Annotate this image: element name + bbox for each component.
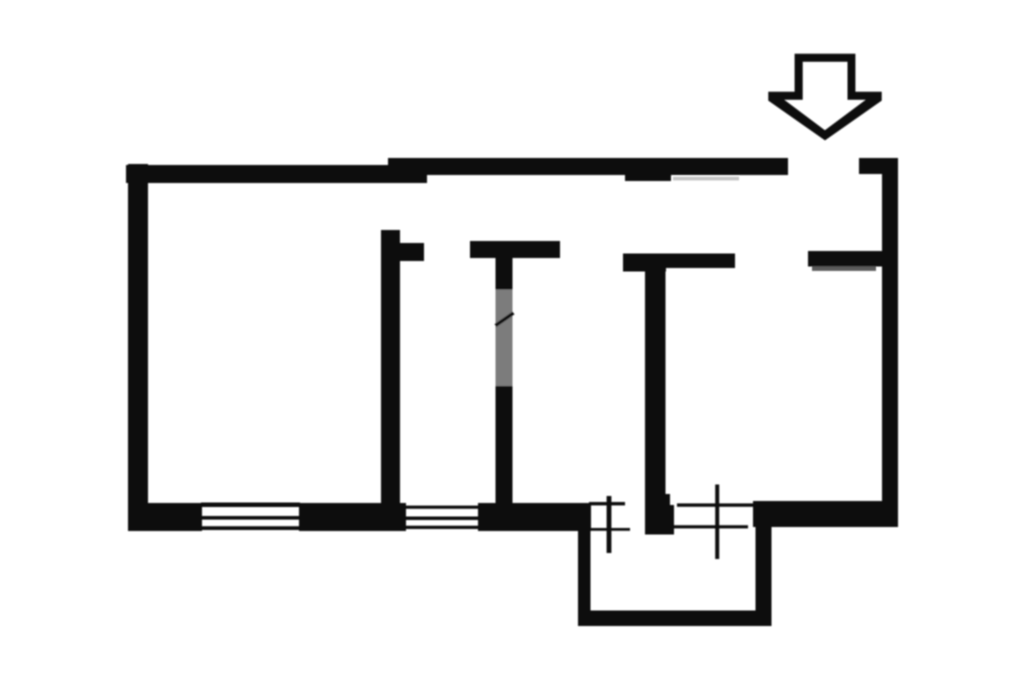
window W1 bottom line bbox=[201, 526, 300, 530]
interior wall C bar left end cap bbox=[623, 255, 666, 272]
window W1 middle line bbox=[201, 516, 300, 520]
window W1 top line bbox=[201, 503, 300, 508]
top wall bump bbox=[625, 174, 671, 181]
bottom wall segment between windows bbox=[299, 503, 406, 531]
interior wall A vertical bbox=[381, 230, 400, 504]
interior wall C stem bbox=[645, 262, 666, 529]
window W2 middle line bbox=[406, 517, 479, 521]
top wall faint trace bbox=[673, 177, 739, 181]
balcony window D2 frame tick bbox=[715, 485, 719, 560]
interior wall C foot bbox=[645, 505, 674, 535]
balcony window D2 top line bbox=[677, 503, 754, 506]
balcony door D1 frame tick bbox=[607, 496, 612, 553]
interior wall B stem upper black bbox=[496, 256, 513, 291]
balcony right wall bbox=[756, 524, 772, 626]
outer wall: top right stub at entrance bbox=[859, 158, 898, 174]
balcony door D1 top line bbox=[589, 502, 625, 505]
outer wall: top left section bbox=[126, 165, 427, 183]
outer wall: right bbox=[882, 158, 898, 524]
interior wall A stub bbox=[398, 243, 424, 261]
interior wall D shadow fringe bbox=[812, 266, 876, 271]
interior wall C foot tab bbox=[660, 494, 670, 508]
interior wall B header bar bbox=[470, 241, 560, 258]
balcony bottom wall bbox=[578, 611, 771, 627]
balcony door D1 bottom line bbox=[589, 528, 630, 531]
bottom wall segment left bbox=[128, 503, 202, 531]
bottom wall segment right of window W2 bbox=[478, 503, 591, 531]
outer wall: left bbox=[128, 164, 148, 531]
interior wall B gray section tick bbox=[496, 313, 514, 326]
interior wall D stub bbox=[808, 251, 883, 267]
window W2 top line bbox=[406, 506, 479, 509]
bottom wall segment right bbox=[753, 501, 898, 527]
interior wall C header bar bbox=[623, 254, 735, 269]
balcony left wall bbox=[578, 528, 591, 626]
balcony window D2 bottom line bbox=[674, 525, 748, 528]
interior wall B stem gray section bbox=[496, 290, 513, 387]
outer wall: top right section bbox=[388, 158, 788, 175]
interior wall B stem lower black bbox=[496, 386, 513, 504]
window W2 bottom line bbox=[406, 526, 479, 529]
entrance arrow bbox=[768, 54, 881, 141]
